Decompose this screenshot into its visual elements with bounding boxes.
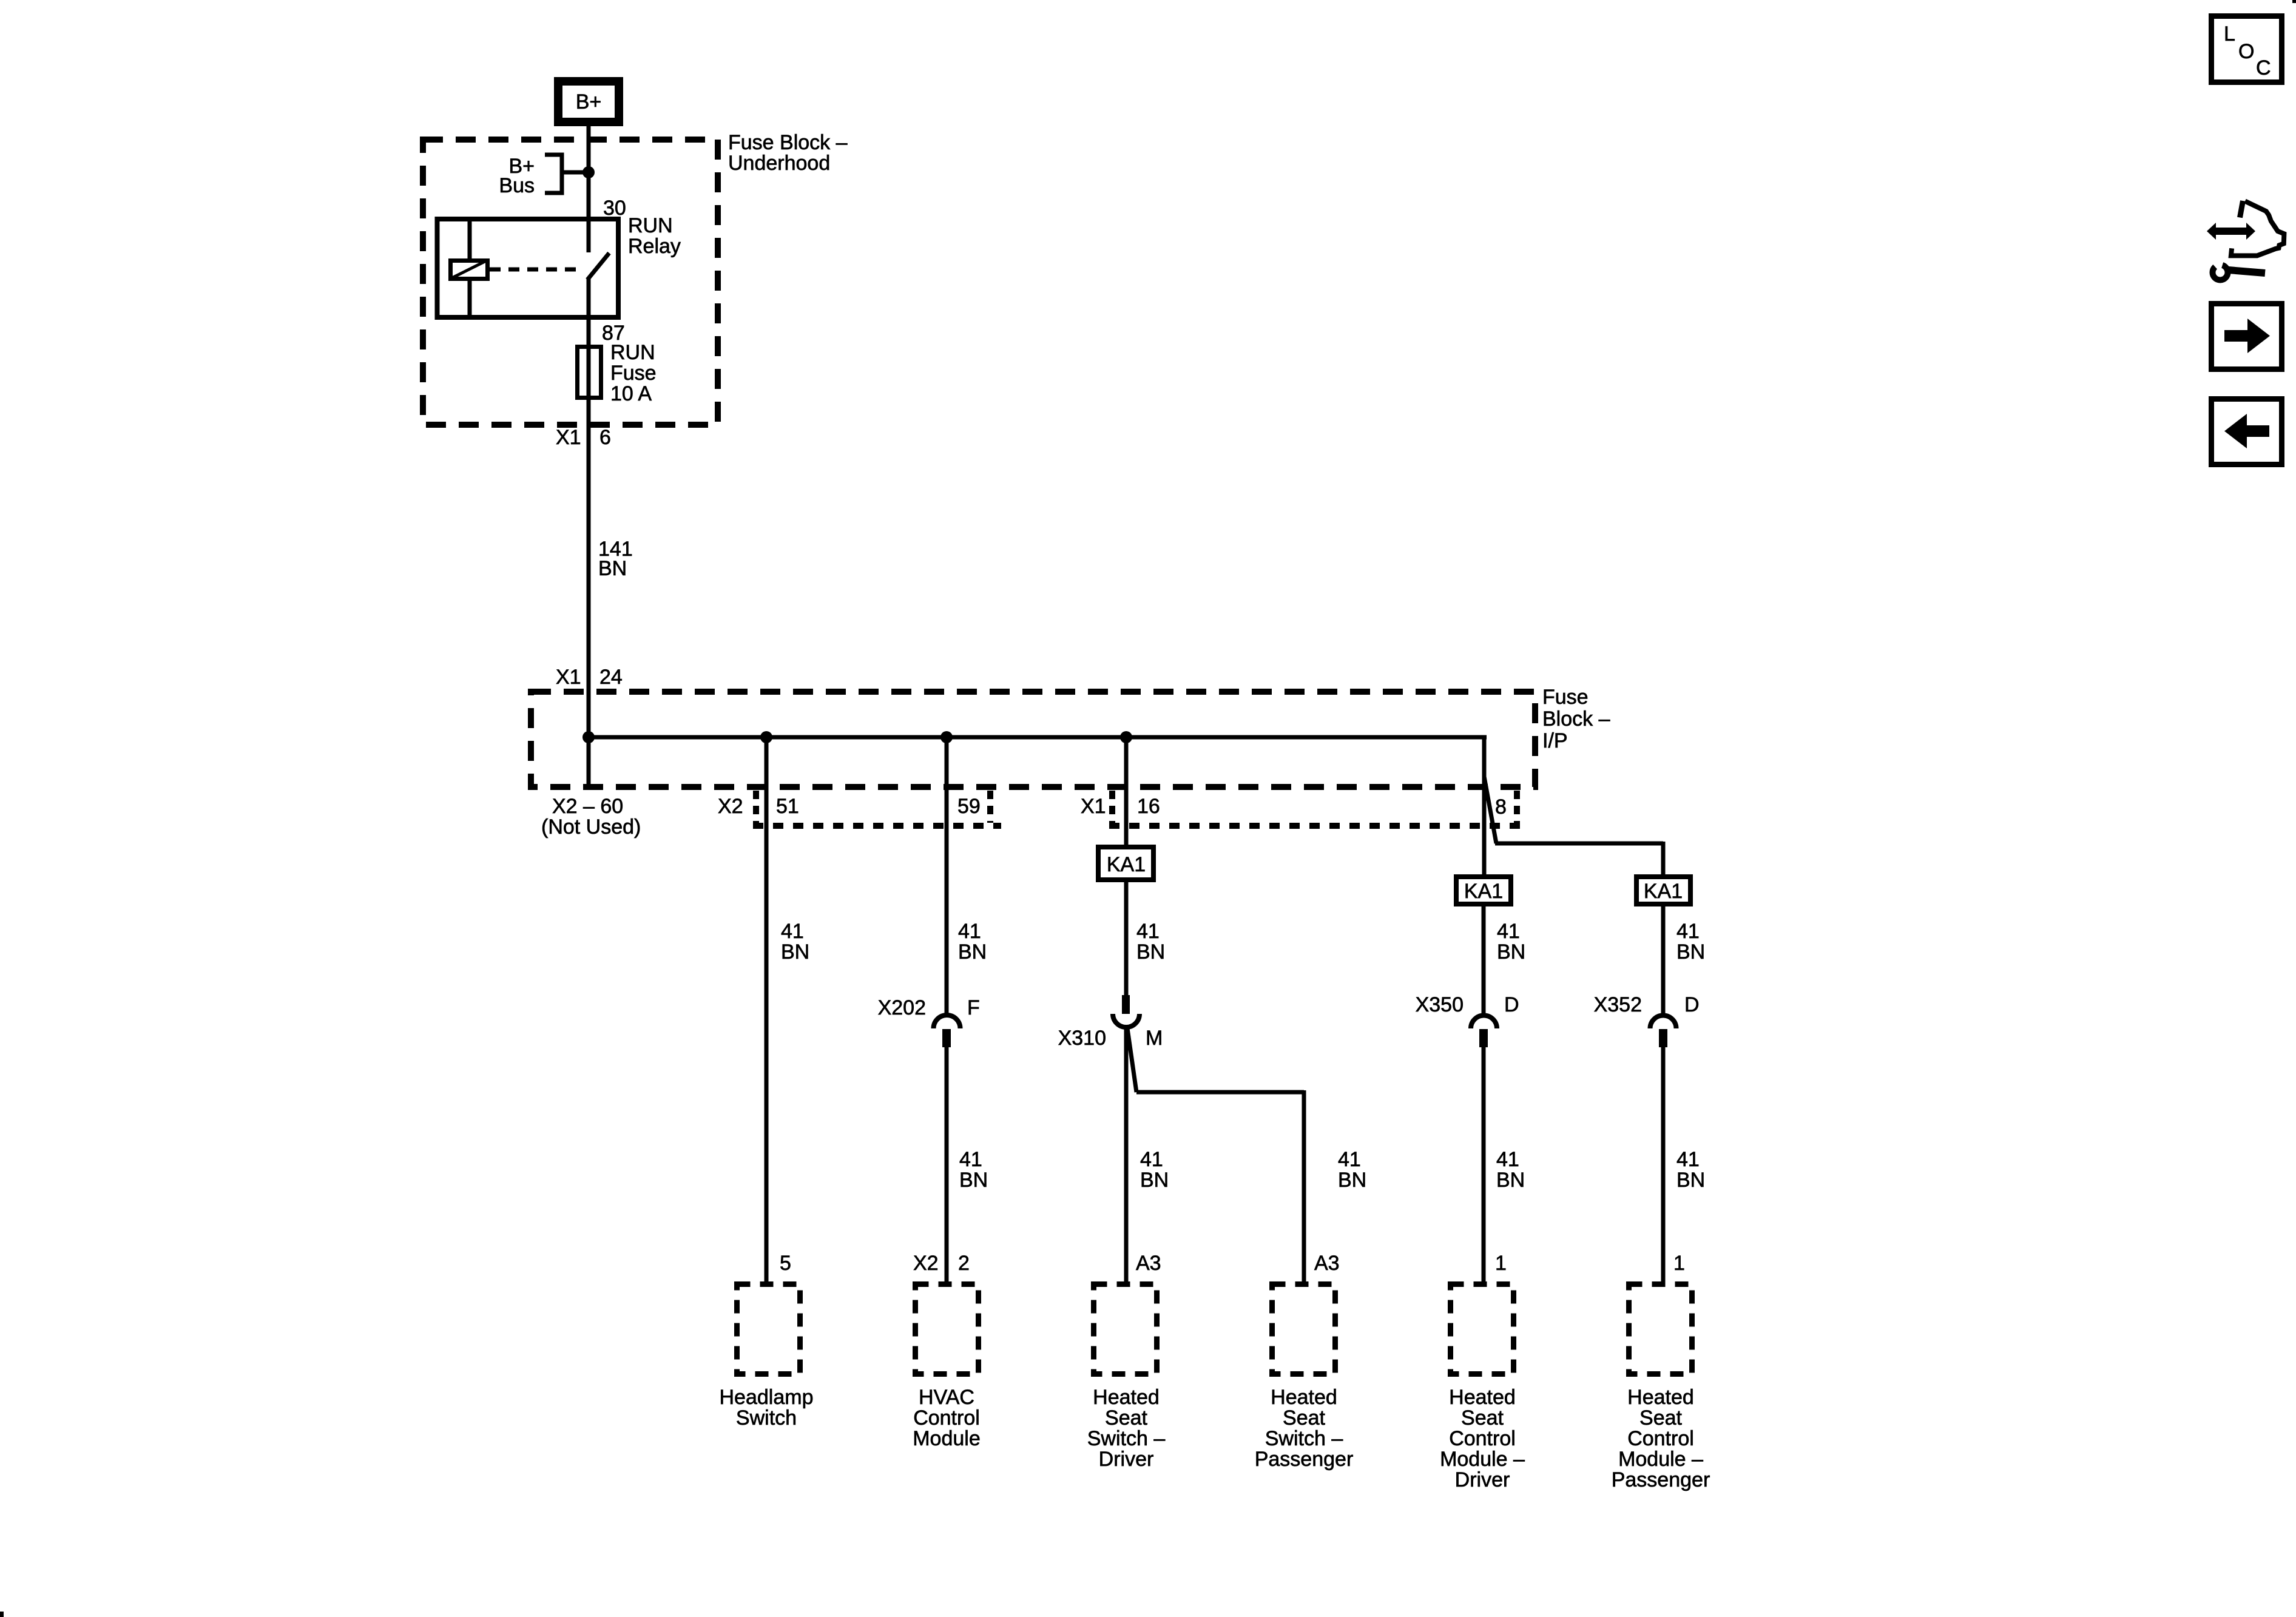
svg-text:BN: BN bbox=[1496, 1169, 1525, 1192]
wire branch B HVAC lower bbox=[945, 1047, 949, 1281]
component box heated seat control module driver bbox=[1451, 1284, 1514, 1374]
svg-text:41: 41 bbox=[1497, 920, 1520, 943]
wire stub X2-60 not used bbox=[587, 737, 591, 787]
svg-text:Driver: Driver bbox=[1099, 1448, 1154, 1471]
svg-text:BN: BN bbox=[598, 557, 627, 580]
wire branch D split diagonal bbox=[1127, 1028, 1136, 1092]
svg-text:Heated: Heated bbox=[1271, 1386, 1337, 1409]
wire label 41 BN branch C lower bbox=[1140, 1148, 1169, 1192]
svg-text:Module: Module bbox=[913, 1427, 981, 1450]
component box heated seat switch driver bbox=[1094, 1284, 1157, 1374]
wire branch E KA1 to X350 bbox=[1482, 906, 1486, 1014]
relay KA1 box branch C bbox=[1098, 847, 1153, 880]
svg-text:6: 6 bbox=[599, 426, 611, 449]
svg-text:Bus: Bus bbox=[499, 174, 535, 197]
relay switch blade bbox=[587, 253, 609, 280]
svg-text:2: 2 bbox=[958, 1252, 970, 1275]
svg-text:41: 41 bbox=[1676, 1148, 1700, 1171]
svg-text:O: O bbox=[2238, 40, 2254, 63]
wire label 141 BN bbox=[598, 538, 633, 580]
fuse block underhood dashed box bbox=[423, 140, 718, 425]
label Fuse Block - Underhood bbox=[728, 131, 848, 175]
connector X1 pin 6 label bbox=[556, 426, 611, 449]
power symbol B+ box bbox=[558, 81, 619, 122]
connector X352 D symbol bbox=[1650, 1016, 1676, 1048]
svg-text:Switch –: Switch – bbox=[1265, 1427, 1343, 1450]
svg-text:59: 59 bbox=[957, 795, 981, 818]
svg-text:BN: BN bbox=[1676, 1169, 1705, 1192]
relay KA1 box branch E bbox=[1456, 877, 1511, 904]
wire branch D vertical to switch passenger bbox=[1302, 1090, 1306, 1281]
svg-text:A3: A3 bbox=[1136, 1252, 1161, 1275]
splice X310 M symbol bbox=[1113, 995, 1140, 1027]
svg-text:M: M bbox=[1146, 1027, 1163, 1050]
wire label 41 BN branch F bbox=[1676, 920, 1705, 964]
svg-text:F: F bbox=[967, 996, 980, 1019]
svg-text:D: D bbox=[1504, 993, 1519, 1016]
svg-text:X202: X202 bbox=[878, 996, 926, 1019]
connector X1 strip of fuse block I/P bbox=[1109, 791, 1523, 826]
svg-text:KA1: KA1 bbox=[1464, 880, 1503, 903]
svg-text:BN: BN bbox=[1338, 1169, 1366, 1192]
svg-text:Block –: Block – bbox=[1542, 707, 1610, 731]
svg-text:41: 41 bbox=[959, 1148, 982, 1171]
caption headlamp switch bbox=[720, 1386, 814, 1430]
wire B+ to relay pin 30 bbox=[587, 126, 591, 252]
svg-text:BN: BN bbox=[958, 940, 987, 964]
svg-text:Passenger: Passenger bbox=[1612, 1468, 1710, 1491]
wire branch F diagonal takeoff bbox=[1484, 777, 1496, 843]
svg-text:1: 1 bbox=[1495, 1252, 1507, 1275]
wire label 41 BN branch B bbox=[958, 920, 987, 964]
wire label 41 BN branch E lower bbox=[1496, 1148, 1525, 1192]
svg-text:24: 24 bbox=[599, 666, 623, 689]
icon arrow back box bbox=[2212, 399, 2282, 465]
svg-text:Headlamp: Headlamp bbox=[720, 1386, 814, 1409]
svg-text:Module –: Module – bbox=[1618, 1448, 1703, 1471]
icon wrench bbox=[2210, 258, 2265, 280]
junction dot main bbox=[582, 731, 595, 743]
svg-text:Passenger: Passenger bbox=[1255, 1448, 1354, 1471]
svg-text:(Not Used): (Not Used) bbox=[541, 815, 641, 839]
page corner mark bbox=[0, 1612, 4, 1617]
icon LOC box bbox=[2212, 16, 2282, 83]
label RUN Relay bbox=[628, 214, 681, 258]
icon double arrow bbox=[2207, 223, 2255, 240]
svg-text:10 A: 10 A bbox=[610, 382, 652, 405]
svg-text:A3: A3 bbox=[1314, 1252, 1340, 1275]
component box heated seat switch passenger bbox=[1272, 1284, 1335, 1374]
svg-text:KA1: KA1 bbox=[1644, 880, 1683, 903]
svg-text:Relay: Relay bbox=[628, 235, 681, 258]
svg-text:Heated: Heated bbox=[1627, 1386, 1694, 1409]
relay actuation dashed link bbox=[490, 268, 584, 272]
wire branch D horizontal bbox=[1136, 1090, 1304, 1095]
component box HVAC control module bbox=[916, 1284, 979, 1374]
svg-text:BN: BN bbox=[1497, 940, 1525, 964]
wire label 41 BN branch A bbox=[781, 920, 809, 964]
wire label 41 BN branch D bbox=[1338, 1148, 1366, 1192]
svg-text:41: 41 bbox=[1140, 1148, 1163, 1171]
svg-text:BN: BN bbox=[1676, 940, 1705, 964]
svg-text:RUN: RUN bbox=[610, 341, 655, 364]
connector X350 D symbol bbox=[1471, 1016, 1497, 1048]
connector X202 F symbol bbox=[934, 1015, 961, 1047]
svg-text:41: 41 bbox=[1496, 1148, 1519, 1171]
wire branch C X310 to switch driver bbox=[1124, 1028, 1129, 1281]
label X2 pin 51 pin 59 bbox=[718, 795, 981, 818]
svg-text:X1: X1 bbox=[556, 666, 581, 689]
component box headlamp switch bbox=[737, 1284, 800, 1374]
connector X2 strip of fuse block I/P bbox=[753, 791, 1001, 826]
svg-text:Driver: Driver bbox=[1455, 1468, 1510, 1491]
wire relay pin 87 down bbox=[587, 279, 591, 737]
wire branch C upper bbox=[1124, 737, 1129, 845]
caption heated seat control module passenger bbox=[1612, 1386, 1710, 1491]
svg-text:Module –: Module – bbox=[1440, 1448, 1525, 1471]
icon vehicle outline bbox=[2231, 201, 2284, 255]
svg-text:X350: X350 bbox=[1416, 993, 1464, 1016]
svg-text:41: 41 bbox=[781, 920, 804, 943]
caption heated seat switch passenger bbox=[1255, 1386, 1354, 1471]
svg-text:X1: X1 bbox=[556, 426, 581, 449]
svg-text:L: L bbox=[2224, 22, 2235, 46]
svg-text:41: 41 bbox=[1136, 920, 1160, 943]
wire branch B HVAC upper bbox=[945, 737, 949, 1014]
label X352 D bbox=[1594, 993, 1700, 1016]
wire branch F X352 to module passenger bbox=[1661, 1047, 1666, 1281]
svg-text:X310: X310 bbox=[1058, 1027, 1106, 1050]
svg-text:Seat: Seat bbox=[1283, 1406, 1325, 1430]
caption heated seat control module driver bbox=[1440, 1386, 1525, 1491]
svg-text:Control: Control bbox=[1627, 1427, 1694, 1450]
label X1 pin 16 pin 8 bbox=[1081, 795, 1507, 819]
wire branch E from bus bbox=[1482, 735, 1487, 874]
svg-text:16: 16 bbox=[1137, 795, 1160, 818]
wire label 41 BN branch F lower bbox=[1676, 1148, 1705, 1192]
label Fuse Block - I/P bbox=[1542, 686, 1610, 752]
svg-text:Switch –: Switch – bbox=[1087, 1427, 1166, 1450]
svg-text:Seat: Seat bbox=[1639, 1406, 1682, 1430]
svg-text:Seat: Seat bbox=[1105, 1406, 1147, 1430]
label X202 F bbox=[878, 996, 980, 1019]
relay coil pin wire bbox=[468, 217, 472, 320]
label B+ Bus bbox=[499, 155, 535, 197]
svg-text:HVAC: HVAC bbox=[919, 1386, 974, 1409]
svg-text:X2 – 60: X2 – 60 bbox=[552, 795, 623, 818]
label X2 - 60 (Not Used) bbox=[541, 795, 641, 839]
svg-text:41: 41 bbox=[1676, 920, 1700, 943]
label X350 D bbox=[1416, 993, 1519, 1016]
wire branch F vertical to KA1 bbox=[1661, 842, 1666, 874]
svg-text:41: 41 bbox=[958, 920, 981, 943]
label RUN Fuse 10 A bbox=[610, 341, 657, 405]
svg-text:8: 8 bbox=[1495, 795, 1507, 819]
svg-text:Fuse: Fuse bbox=[610, 362, 657, 385]
svg-text:1: 1 bbox=[1673, 1252, 1685, 1275]
svg-text:51: 51 bbox=[776, 795, 799, 818]
svg-text:Control: Control bbox=[1449, 1427, 1516, 1450]
icon arrow next box bbox=[2212, 304, 2282, 370]
wire branch E X350 to module driver bbox=[1482, 1047, 1486, 1281]
junction dot at B+ bus bbox=[582, 166, 595, 178]
svg-text:X2: X2 bbox=[913, 1252, 939, 1275]
svg-text:5: 5 bbox=[780, 1252, 791, 1275]
svg-text:B+: B+ bbox=[576, 90, 602, 113]
svg-text:X2: X2 bbox=[718, 795, 743, 818]
wire branch F horizontal bbox=[1495, 842, 1663, 846]
page corner mark top right bbox=[2292, 0, 2296, 3]
relay coil box bbox=[451, 261, 488, 279]
svg-text:Switch: Switch bbox=[736, 1406, 797, 1430]
svg-text:KA1: KA1 bbox=[1107, 853, 1146, 876]
wire branch A headlamp switch bbox=[765, 737, 769, 1281]
junction dot branch C bbox=[1120, 731, 1132, 743]
pin X2 2 label HVAC bbox=[913, 1252, 970, 1275]
svg-text:X352: X352 bbox=[1594, 993, 1642, 1016]
wire label 41 BN branch E bbox=[1497, 920, 1525, 964]
svg-text:Fuse: Fuse bbox=[1542, 686, 1589, 709]
relay K1 RUN Relay box bbox=[437, 219, 619, 317]
junction dot branch A bbox=[760, 731, 772, 743]
svg-text:Control: Control bbox=[913, 1406, 980, 1430]
svg-text:I/P: I/P bbox=[1542, 729, 1568, 752]
svg-text:RUN: RUN bbox=[628, 214, 673, 237]
wire branch F KA1 to X352 bbox=[1661, 906, 1666, 1014]
wire branch C KA1 to X310 bbox=[1124, 882, 1129, 995]
label X310 M bbox=[1058, 1027, 1163, 1050]
svg-text:BN: BN bbox=[959, 1169, 988, 1192]
svg-text:Heated: Heated bbox=[1093, 1386, 1160, 1409]
wire label 41 BN branch C bbox=[1136, 920, 1165, 964]
fuse RUN Fuse 10A bbox=[578, 347, 601, 398]
svg-text:BN: BN bbox=[781, 940, 809, 964]
wire label 41 BN branch B lower bbox=[959, 1148, 988, 1192]
bus wire inside fuse block I/P bbox=[589, 735, 1484, 740]
junction dot branch B bbox=[940, 731, 953, 743]
component box heated seat control module passenger bbox=[1629, 1284, 1692, 1374]
svg-text:Fuse Block –: Fuse Block – bbox=[728, 131, 848, 154]
svg-text:D: D bbox=[1684, 993, 1700, 1016]
relay KA1 box branch F bbox=[1636, 877, 1690, 904]
connector X1 pin 24 label bbox=[556, 666, 623, 689]
svg-text:Underhood: Underhood bbox=[728, 152, 830, 175]
svg-text:30: 30 bbox=[603, 197, 626, 220]
caption heated seat switch driver bbox=[1087, 1386, 1166, 1471]
fuse block I/P dashed box bbox=[531, 692, 1535, 787]
svg-text:BN: BN bbox=[1136, 940, 1165, 964]
svg-text:41: 41 bbox=[1338, 1148, 1361, 1171]
svg-text:C: C bbox=[2256, 56, 2271, 79]
svg-text:Seat: Seat bbox=[1461, 1406, 1504, 1430]
node B+ Bus bracket bbox=[545, 155, 589, 193]
caption HVAC control module bbox=[913, 1386, 981, 1450]
svg-text:Heated: Heated bbox=[1449, 1386, 1516, 1409]
svg-text:BN: BN bbox=[1140, 1169, 1169, 1192]
svg-text:X1: X1 bbox=[1081, 795, 1106, 818]
